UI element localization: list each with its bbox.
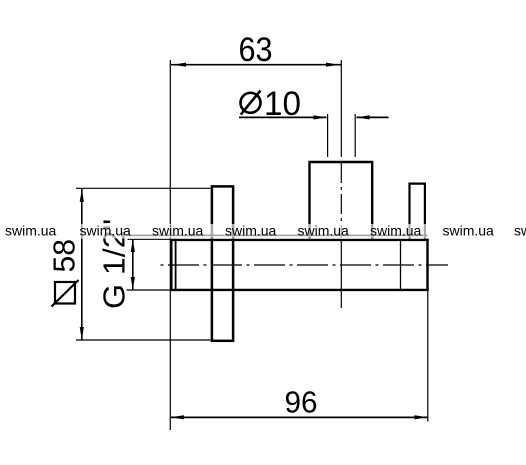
svg-text:swim.ua: swim.ua (298, 223, 350, 239)
svg-text:swim.ua: swim.ua (514, 223, 526, 239)
svg-text:swim.ua: swim.ua (443, 223, 495, 239)
svg-text:swim.ua: swim.ua (370, 223, 422, 239)
svg-text:swim.ua: swim.ua (5, 223, 57, 239)
svg-text:10: 10 (264, 85, 301, 123)
svg-text:swim.ua: swim.ua (152, 223, 204, 239)
svg-text:63: 63 (239, 31, 273, 69)
svg-text:swim.ua: swim.ua (80, 223, 132, 239)
svg-text:swim.ua: swim.ua (225, 223, 277, 239)
svg-text:58: 58 (47, 239, 82, 273)
svg-text:96: 96 (285, 384, 318, 419)
